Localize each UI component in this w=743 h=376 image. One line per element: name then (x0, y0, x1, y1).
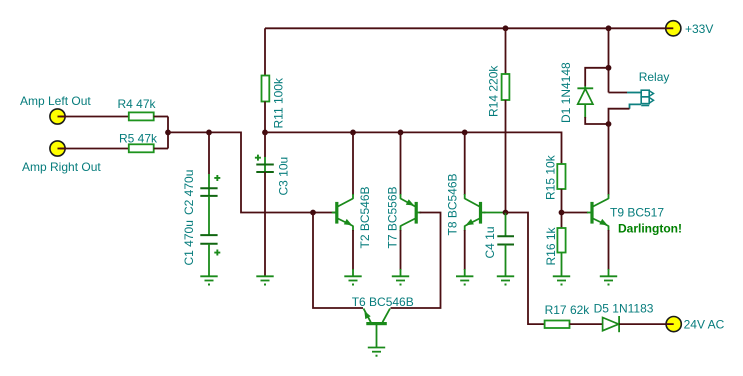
node T8 base / C4 junction (503, 210, 509, 216)
svg-text:T6 BC546B: T6 BC546B (352, 295, 414, 309)
svg-text:C1 470u: C1 470u (182, 220, 196, 265)
wire T8 emitter to ground (464, 226, 466, 231)
wire T7 base to T6 collector (391, 213, 441, 309)
wire R14 top (505, 28, 507, 74)
ground under T6 (368, 348, 385, 357)
wire R17 to D5 (570, 323, 604, 325)
wire C4 node to R17 drop (506, 213, 545, 325)
svg-text:R11 100k: R11 100k (272, 77, 286, 128)
svg-text:D1 1N4148: D1 1N4148 (559, 62, 573, 123)
wire T8 collector (464, 132, 466, 195)
capacitor C4 (483, 213, 514, 259)
capacitor C1 (182, 220, 220, 265)
wire C3 to ground (264, 172, 266, 276)
resistor R15 (544, 154, 566, 200)
wire T9 base (562, 212, 589, 214)
wire R11 top (264, 28, 266, 76)
capacitor C2 (182, 132, 220, 215)
wire T7 collector to ground (400, 226, 402, 231)
svg-text:R4 47k: R4 47k (118, 97, 157, 111)
wire T6 emitter drop (313, 213, 363, 309)
terminal Amp Left Out (20, 94, 91, 124)
wire R16 to ground (561, 253, 563, 277)
node +33V bus R14 tap (503, 25, 509, 31)
node T8 collector tap (462, 130, 468, 136)
wire R5 to junction (154, 148, 168, 150)
node +33V bus relay tap (606, 25, 612, 31)
svg-text:T7 BC556B: T7 BC556B (386, 186, 400, 248)
wire relay column top (608, 28, 610, 92)
capacitor C3 (255, 132, 291, 195)
svg-text:T8 BC546B: T8 BC546B (446, 173, 460, 235)
svg-text:R16 1k: R16 1k (544, 226, 558, 265)
resistor R17 (545, 303, 591, 328)
svg-text:C4 1u: C4 1u (483, 226, 497, 258)
terminal 24V AC (666, 317, 725, 332)
ground under T7 (392, 276, 409, 285)
ground under C3 (256, 276, 273, 285)
svg-text:+33V: +33V (685, 22, 713, 36)
resistor R4 (118, 97, 157, 120)
transistor T7 (386, 186, 422, 248)
ground under T9 (600, 276, 617, 285)
wire T2 emitter to ground (352, 226, 354, 231)
wire T7 emitter from bus (400, 132, 402, 195)
relay (639, 70, 670, 106)
resistor R11 (262, 76, 286, 129)
node R15/R16/T9 base junction (559, 210, 565, 216)
node T2 collector tap (350, 130, 356, 136)
wire D1 bottom branch (585, 117, 608, 124)
wire R4 to junction (154, 116, 168, 118)
wire mix vertical (167, 117, 169, 149)
svg-text:R14 220k: R14 220k (487, 65, 501, 117)
wire D5 to 24V terminal (619, 323, 666, 325)
node R11/C3 junction (262, 130, 268, 136)
svg-text:R17 62k: R17 62k (545, 303, 591, 317)
wire T2 collector (352, 132, 354, 195)
svg-text:D5 1N1183: D5 1N1183 (594, 302, 654, 316)
svg-text:Relay: Relay (639, 70, 670, 84)
resistor R16 (544, 226, 566, 265)
resistor R5 (119, 132, 158, 153)
transistor T9 (587, 199, 682, 236)
wire bus B segment 1 (168, 132, 336, 212)
resistor R14 (487, 65, 510, 117)
wire C2 to C1 (208, 196, 210, 235)
svg-text:24V AC: 24V AC (684, 318, 725, 332)
ground under T2 (344, 276, 361, 285)
terminal +33V (666, 21, 714, 36)
svg-text:Amp Left Out: Amp Left Out (20, 94, 91, 108)
wire relay bottom pin (630, 104, 642, 108)
ground under R16 (553, 276, 570, 285)
wire T8 base to R14/C4 node (484, 212, 506, 214)
svg-text:C3 10u: C3 10u (277, 157, 291, 196)
svg-text:R5 47k: R5 47k (119, 132, 158, 146)
node R4/R5 junction (165, 130, 171, 136)
svg-text:R15 10k: R15 10k (544, 154, 558, 200)
diode D5 (594, 302, 654, 333)
wire right-out to R5 (60, 148, 129, 150)
wire T9 emitter to ground (608, 226, 610, 231)
terminal Amp Right Out (22, 141, 101, 174)
svg-text:T2 BC546B: T2 BC546B (358, 186, 372, 248)
wire left-out to R4 (60, 116, 129, 118)
svg-text:T9 BC517: T9 BC517 (610, 206, 664, 220)
svg-text:Amp Right Out: Amp Right Out (22, 160, 101, 174)
transistor T6 (352, 295, 414, 347)
wire R15 bottom (561, 189, 563, 228)
node D1 bottom junction (606, 121, 612, 127)
node C1/C2 tap (206, 130, 212, 136)
node T7 emitter tap (398, 130, 404, 136)
wire top +33V bus (265, 27, 666, 29)
wire relay top pin (609, 92, 628, 94)
wire R14 bottom to T8 base node (505, 100, 507, 213)
wire D1 top branch (585, 68, 608, 86)
transistor T2 (332, 186, 372, 248)
wire relay column to T9 collector (608, 124, 610, 195)
wire C4 to ground (505, 245, 507, 277)
svg-text:Darlington!: Darlington! (618, 222, 682, 236)
ground under C4 (497, 276, 514, 285)
node D1 top junction (606, 65, 612, 71)
node T2 base / T6 tap (310, 210, 316, 216)
ground under T8 (456, 276, 473, 285)
svg-text:C2 470u: C2 470u (182, 170, 196, 215)
diode D1 (559, 62, 593, 123)
transistor T8 (446, 173, 486, 235)
wire C1 to ground (208, 244, 210, 276)
wire R11 bottom (264, 102, 266, 133)
ground under C1 (200, 276, 217, 285)
wire bus B segment 2 (265, 132, 562, 164)
